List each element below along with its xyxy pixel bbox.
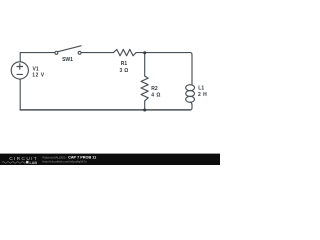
- voltage source V1: [11, 62, 28, 79]
- inductor L1: [186, 85, 195, 103]
- wire: V1 top to top-left corner to SW1 left terminal: [20, 53, 55, 62]
- wire: V1 bottom lead: [19, 80, 21, 110]
- svg-text:12 V: 12 V: [32, 73, 44, 79]
- watermark bar: [0, 154, 220, 165]
- wire: R1 to node A: [136, 52, 145, 54]
- CircuitLab logo: [2, 156, 38, 165]
- svg-text:SW1: SW1: [62, 57, 73, 63]
- svg-text:http://circuitlab.com/c6pq4g5k: http://circuitlab.com/c6pq4g5k7u: [43, 159, 88, 163]
- svg-text:LAB: LAB: [30, 161, 38, 165]
- svg-text:L1: L1: [198, 85, 204, 91]
- resistor R1: [114, 49, 137, 55]
- svg-text:4 Ω: 4 Ω: [151, 93, 161, 99]
- resistor R2: [141, 76, 148, 101]
- node B junction: [143, 109, 146, 112]
- svg-text:R2: R2: [151, 86, 158, 92]
- switch SW1: [55, 46, 81, 55]
- wire: SW1 right terminal to R1: [81, 52, 113, 54]
- wire: R2 to bottom node B: [144, 101, 146, 110]
- wire: bottom rail: [20, 109, 190, 111]
- svg-text:2 H: 2 H: [198, 92, 207, 98]
- svg-text:R1: R1: [121, 61, 128, 67]
- svg-text:3 Ω: 3 Ω: [119, 68, 128, 74]
- wire: L1 bottom to bottom-right corner: [190, 102, 192, 110]
- wire: node A down to R2: [144, 53, 146, 76]
- wire: node A to top-right corner down to L1: [145, 53, 192, 85]
- node A junction: [143, 51, 146, 54]
